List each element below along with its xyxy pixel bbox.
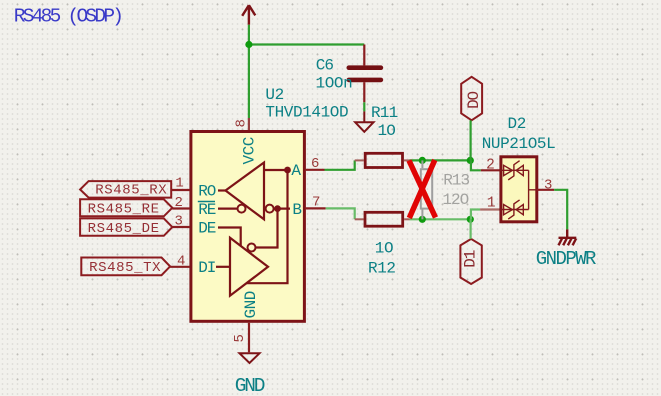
svg-text:3: 3 <box>544 178 552 194</box>
svg-text:DO: DO <box>465 91 483 108</box>
svg-text:5: 5 <box>232 334 248 342</box>
diode D2 body <box>501 157 537 222</box>
global label RS485_RE <box>80 199 172 217</box>
svg-text:RS485_RE: RS485_RE <box>88 202 160 218</box>
wire A row right <box>410 159 471 161</box>
junction A D0 <box>467 157 474 164</box>
wire DE internal <box>218 228 241 247</box>
wire D0 drop <box>470 120 472 160</box>
pin 1 D2 stub <box>480 208 500 210</box>
pin 4 line <box>170 266 190 268</box>
svg-text:1: 1 <box>175 175 183 191</box>
resistor R11 right stub <box>404 159 410 161</box>
bubble RE enable <box>238 205 246 213</box>
svg-text:GND: GND <box>235 375 265 396</box>
svg-text:DE: DE <box>198 220 215 238</box>
pin 6 stub <box>305 169 325 171</box>
capacitor C6 <box>349 45 381 103</box>
junction B internal <box>274 205 281 212</box>
wire B row right <box>410 218 471 220</box>
svg-text:2: 2 <box>486 158 494 174</box>
resistor R13 DNP grey <box>421 160 432 219</box>
TVS bottom pair <box>499 200 528 219</box>
svg-text:4: 4 <box>177 254 185 270</box>
svg-text:RO: RO <box>198 182 215 200</box>
svg-text:1O: 1O <box>375 240 393 258</box>
resistor R12 right stub <box>404 218 409 220</box>
svg-text:8: 8 <box>234 119 250 127</box>
pin 2 D2 stub <box>481 169 500 171</box>
junction B D1 <box>467 216 474 223</box>
DNP cross over R13 <box>409 160 436 218</box>
svg-text:RE: RE <box>198 201 215 219</box>
global label D0 <box>461 77 483 121</box>
TVS top pair <box>499 161 528 180</box>
global label D1 <box>460 239 481 284</box>
svg-text:7: 7 <box>312 195 320 211</box>
svg-text:12O: 12O <box>442 191 468 209</box>
global label RS485_RX <box>80 181 171 199</box>
junction A R13 <box>419 157 426 164</box>
pin 1 line <box>171 189 190 191</box>
pin 7 stub <box>305 207 326 209</box>
bubble driver B output <box>248 244 256 252</box>
pin 5 line <box>248 323 250 353</box>
junction B R13 <box>419 216 426 223</box>
wire A row to R11 <box>325 160 355 169</box>
pin 3 D2 stub <box>537 189 554 191</box>
svg-text:C6: C6 <box>316 56 334 74</box>
svg-text:R13: R13 <box>443 172 469 190</box>
svg-text:RS485_TX: RS485_TX <box>89 260 161 276</box>
svg-text:NUP21O5L: NUP21O5L <box>482 135 556 153</box>
svg-text:6: 6 <box>311 156 319 172</box>
wire B to D2 pin1 <box>471 210 480 220</box>
svg-text:1OOn: 1OOn <box>316 75 353 93</box>
svg-text:VCC: VCC <box>241 137 259 164</box>
wire B row to R12 <box>326 208 355 219</box>
resistor R11 <box>365 153 402 167</box>
svg-text:RS485_DE: RS485_DE <box>88 221 160 237</box>
receiver triangle U2 <box>226 163 265 220</box>
wire D1 drop <box>470 219 472 239</box>
svg-text:GNDPWR: GNDPWR <box>536 248 596 270</box>
global label RS485_TX <box>81 258 170 277</box>
bubble B input <box>266 205 274 213</box>
ground under C6 <box>355 111 373 131</box>
svg-text:B: B <box>292 201 301 219</box>
svg-text:3: 3 <box>175 214 183 230</box>
wire pin3 to GNDPWR <box>554 190 567 230</box>
pin 3 line <box>172 226 190 228</box>
svg-text:R11: R11 <box>371 104 398 122</box>
wire B internal <box>274 208 290 210</box>
svg-text:GND: GND <box>242 291 260 318</box>
pin 2 line <box>172 207 190 209</box>
svg-text:U2: U2 <box>265 86 283 104</box>
wire driver output to A <box>246 170 287 283</box>
wire C6 to GND <box>363 102 365 111</box>
resistor R12 <box>365 212 403 226</box>
pin 8 VCC stub <box>248 118 250 130</box>
wire VCC vertical <box>248 25 250 118</box>
svg-text:THVD141OD: THVD141OD <box>265 103 348 121</box>
svg-text:R12: R12 <box>368 259 396 277</box>
D2 internal link <box>529 170 537 209</box>
svg-text:1: 1 <box>487 196 495 212</box>
power symbol VCC arrow <box>242 5 255 25</box>
svg-text:1O: 1O <box>378 122 396 140</box>
svg-text:2: 2 <box>175 195 183 211</box>
wire DI internal <box>216 266 230 268</box>
svg-text:RS485_RX: RS485_RX <box>95 183 167 199</box>
ground GND bottom <box>240 353 260 363</box>
wire A to D2 pin2 <box>471 160 481 170</box>
driver triangle U2 <box>230 238 268 296</box>
junction A internal <box>284 167 291 174</box>
svg-text:RS485 (OSDP): RS485 (OSDP) <box>14 6 121 28</box>
ground GNDPWR <box>559 229 577 245</box>
global label RS485_DE <box>80 218 172 237</box>
junction VCC node <box>245 41 252 48</box>
wire RE internal <box>218 208 238 210</box>
wire VCC horizontal to C6 <box>249 43 364 45</box>
IC U2 body <box>191 132 305 322</box>
svg-text:D1: D1 <box>462 250 480 267</box>
wire bubble to B <box>256 209 278 248</box>
wire A internal <box>264 169 290 171</box>
svg-text:DI: DI <box>198 259 215 277</box>
wire RO output <box>218 189 226 191</box>
svg-text:D2: D2 <box>508 115 526 133</box>
